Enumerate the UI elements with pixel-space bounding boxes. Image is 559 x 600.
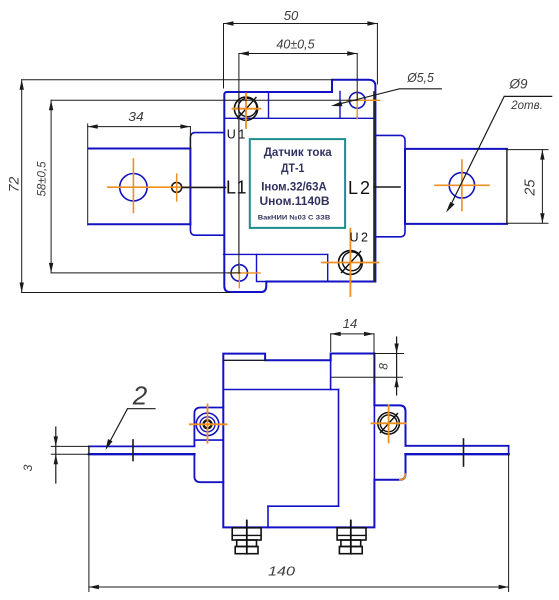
- dimension 3 line: [55, 427, 57, 483]
- svg-text:ВакНИИ №03 С ЗЗВ: ВакНИИ №03 С ЗЗВ: [258, 215, 331, 222]
- svg-text:8: 8: [377, 363, 391, 370]
- dimension 58±0.5 line: [50, 100, 52, 273]
- right boss bolt outer circle: [378, 413, 400, 435]
- svg-text:140: 140: [268, 564, 296, 579]
- left collar neck bottom: [190, 224, 224, 235]
- front view inner step vertical: [267, 506, 269, 527]
- right tab hole circle: [449, 173, 474, 198]
- label plate border: [250, 139, 345, 228]
- left tab centerline horizontal: [108, 186, 190, 188]
- front view right edge inner: [373, 405, 375, 479]
- bolt bottom-right inner circle: [342, 252, 361, 271]
- right tab centerline horizontal: [435, 184, 489, 186]
- right tab end edge: [506, 149, 508, 224]
- leader Ø5.5: [336, 89, 441, 105]
- left busbar: [89, 445, 194, 447]
- bolt bottom-right slash: [342, 252, 361, 273]
- right boss bolt centerlines: [372, 405, 406, 442]
- svg-text:2отв.: 2отв.: [510, 100, 543, 112]
- dimension 25 line: [541, 150, 543, 224]
- svg-text:25: 25: [523, 179, 539, 197]
- dimension 40±0.5 line: [239, 53, 357, 55]
- right collar neck bottom: [375, 224, 405, 237]
- svg-text:2: 2: [132, 381, 148, 411]
- inner thin vertical line right: [373, 92, 375, 282]
- bottom bolt right stud: [350, 521, 352, 554]
- svg-text:72: 72: [5, 177, 21, 193]
- svg-text:40±0,5: 40±0,5: [276, 38, 314, 52]
- svg-text:L2: L2: [348, 178, 370, 198]
- bolt bottom-right centerlines: [322, 229, 379, 296]
- left nut outer: [196, 413, 219, 436]
- left collar neck top: [190, 133, 224, 149]
- left nut middle: [200, 417, 215, 432]
- dimension 8 extensions: [332, 354, 404, 378]
- left busbar end cap: [88, 446, 90, 454]
- inner thin vertical line left: [238, 92, 240, 254]
- svg-text:Ø5,5: Ø5,5: [406, 70, 434, 85]
- left tab centerline vertical: [132, 159, 134, 213]
- dimension 14 line: [331, 333, 374, 335]
- hole top-right centerlines: [347, 92, 380, 119]
- dimension 34 extension: [189, 127, 191, 149]
- svg-text:50: 50: [284, 8, 299, 23]
- front view body outline: [223, 354, 405, 528]
- bottom bolt right nut: [339, 547, 362, 554]
- bottom bolt left washer: [232, 528, 261, 540]
- left ear bottom inner edge: [194, 439, 223, 441]
- bottom inner horizontal line: [224, 253, 328, 255]
- left tab small hole: [172, 182, 182, 192]
- top view body outline: [224, 80, 375, 292]
- dimension 72 line: [21, 80, 23, 293]
- dimension 58±0.5 extensions: [51, 100, 357, 273]
- svg-text:Датчик тока: Датчик тока: [264, 145, 332, 159]
- front view top strip bottom edge: [223, 359, 266, 361]
- small hole centerline vertical: [176, 174, 178, 201]
- dimension 14 extensions: [331, 334, 374, 384]
- right boss bolt slash: [381, 414, 398, 433]
- svg-text:L1: L1: [226, 178, 247, 198]
- svg-text:Uном.1140В: Uном.1140В: [260, 196, 330, 208]
- front view inner vertical: [338, 390, 340, 507]
- bottom bolt left stud: [246, 521, 248, 554]
- bottom bolt right washer: [337, 528, 366, 540]
- bottom bolt right neck: [341, 540, 361, 547]
- dimension 140 extensions: [89, 454, 509, 591]
- left nut centerlines: [190, 404, 227, 442]
- front view inner step horizontal: [268, 505, 339, 507]
- right busbar end cap: [508, 446, 510, 454]
- svg-text:14: 14: [343, 316, 358, 331]
- left busbar tick: [132, 440, 134, 461]
- svg-text:58±0,5: 58±0,5: [36, 161, 48, 197]
- dimension 50 line: [224, 23, 378, 25]
- svg-text:Ø9: Ø9: [508, 77, 528, 92]
- position leader 2: [108, 409, 156, 446]
- left tab hole circle: [120, 174, 147, 201]
- hole bottom-left centerlines: [229, 264, 260, 288]
- top inner pocket left vertical: [268, 92, 270, 118]
- dimension 50 extensions: [224, 24, 378, 89]
- right tab centerline vertical: [461, 160, 463, 211]
- svg-text:3: 3: [21, 464, 35, 471]
- hole top-right circle: [349, 92, 365, 108]
- svg-text:34: 34: [128, 109, 144, 124]
- dimension 34 line: [88, 126, 191, 128]
- dimension 25 extensions: [507, 150, 548, 224]
- bolt top-left inner circle: [238, 98, 256, 116]
- svg-text:U2: U2: [350, 231, 369, 245]
- left tab end edge: [87, 124, 89, 225]
- left busbar extension lines: [51, 446, 89, 454]
- L2 lead line: [374, 186, 400, 188]
- bolt bottom-right outer circle: [339, 251, 363, 275]
- dimension 8 line: [396, 337, 398, 395]
- leader Ø9: [449, 96, 552, 208]
- svg-text:Iном.32/63А: Iном.32/63А: [261, 182, 327, 194]
- right ear orange corner: [400, 474, 406, 480]
- svg-text:U1: U1: [227, 128, 246, 142]
- bolt top-left centerlines: [233, 94, 261, 129]
- bolt top-left slash: [238, 98, 257, 119]
- top inner horizontal line: [224, 117, 375, 119]
- right boss bolt inner circle: [380, 415, 397, 432]
- front view lid bottom line: [223, 389, 338, 391]
- right busbar tick: [463, 439, 465, 466]
- dimension 140 line: [89, 586, 509, 588]
- right busbar: [406, 445, 509, 447]
- dimension 40±0.5 extensions: [239, 54, 357, 274]
- front view boss left inner line: [330, 354, 332, 390]
- hole bottom-left circle: [231, 265, 247, 281]
- left ear outline: [194, 408, 223, 483]
- bottom bolt left neck: [237, 540, 257, 547]
- L1 lead line: [182, 186, 226, 188]
- left tab outline: [89, 149, 190, 225]
- dimension 72 extensions: [22, 80, 333, 293]
- left nut inner: [204, 420, 212, 428]
- bottom inner pocket left vertical: [257, 254, 268, 281]
- right collar neck top: [375, 135, 405, 149]
- bottom inner pocket right vertical: [327, 254, 329, 281]
- right tab outline: [405, 149, 507, 224]
- svg-text:ДТ-1: ДТ-1: [281, 161, 305, 175]
- bottom bolt left nut: [235, 547, 258, 554]
- bolt top-left outer circle: [234, 97, 257, 120]
- top inner pocket right vertical: [339, 92, 341, 119]
